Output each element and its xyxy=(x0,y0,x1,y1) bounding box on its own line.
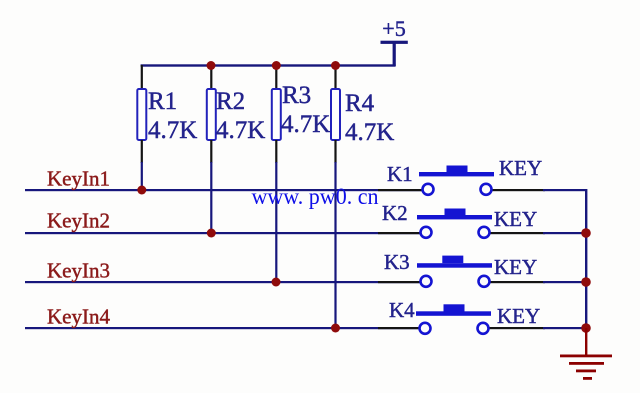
svg-text:KEY: KEY xyxy=(497,304,540,328)
switch K2 xyxy=(378,201,545,238)
junction dot KeyIn4-R4 xyxy=(331,324,340,333)
junction dot rail-K2 xyxy=(581,228,591,238)
svg-text:R1: R1 xyxy=(148,88,177,115)
wire KeyIn2 line xyxy=(25,232,420,234)
svg-text:K3: K3 xyxy=(384,250,410,274)
junction dot rail-K4 xyxy=(581,323,591,333)
switch K1 xyxy=(378,156,545,195)
resistor R3 xyxy=(272,65,331,282)
wire right rail horizontal K3 xyxy=(543,281,586,283)
wire top rail xyxy=(141,64,396,66)
svg-text:KEY: KEY xyxy=(494,255,537,279)
wire right rail horizontal K4 xyxy=(543,327,586,329)
power +5 symbol xyxy=(381,16,408,66)
svg-text:KEY: KEY xyxy=(494,207,537,231)
svg-text:KeyIn1: KeyIn1 xyxy=(47,167,110,191)
junction dot rail-K3 xyxy=(581,277,591,287)
svg-text:K2: K2 xyxy=(382,201,408,225)
svg-text:KeyIn3: KeyIn3 xyxy=(47,259,110,283)
junction dot rail-R3 xyxy=(272,61,281,70)
svg-text:+5: +5 xyxy=(382,16,405,41)
svg-text:KeyIn2: KeyIn2 xyxy=(47,209,110,233)
junction dot KeyIn3-R3 xyxy=(272,278,281,287)
junction dot rail-R2 xyxy=(207,61,216,70)
wire KeyIn4 line xyxy=(25,327,418,329)
wire right rail vertical xyxy=(585,189,587,329)
wire KeyIn1 line xyxy=(25,189,422,191)
svg-text:K1: K1 xyxy=(387,162,413,186)
junction dot KeyIn1-R1 xyxy=(137,186,146,195)
svg-text:R2: R2 xyxy=(216,88,245,115)
svg-text:4.7K: 4.7K xyxy=(148,117,197,144)
wire KeyIn3 line xyxy=(25,281,419,283)
svg-text:4.7K: 4.7K xyxy=(216,117,265,144)
svg-text:4.7K: 4.7K xyxy=(345,119,394,146)
junction dot KeyIn2-R2 xyxy=(207,229,216,238)
switch K3 xyxy=(378,250,545,287)
ground xyxy=(560,328,612,380)
svg-text:K4: K4 xyxy=(389,298,415,322)
resistor R4 xyxy=(331,65,394,328)
junction dot rail-R4 xyxy=(331,61,340,70)
svg-text:KeyIn4: KeyIn4 xyxy=(47,305,110,329)
svg-text:4.7K: 4.7K xyxy=(281,111,330,138)
svg-text:www. pw0. cn: www. pw0. cn xyxy=(252,184,379,209)
wire right rail horizontal K1 xyxy=(543,189,587,191)
svg-text:KEY: KEY xyxy=(499,156,542,180)
svg-text:R4: R4 xyxy=(345,90,375,117)
resistor R2 xyxy=(207,65,266,233)
svg-text:R3: R3 xyxy=(282,82,311,109)
wire right rail horizontal K2 xyxy=(543,232,586,234)
resistor R1 xyxy=(137,65,197,190)
switch K4 xyxy=(378,298,545,334)
